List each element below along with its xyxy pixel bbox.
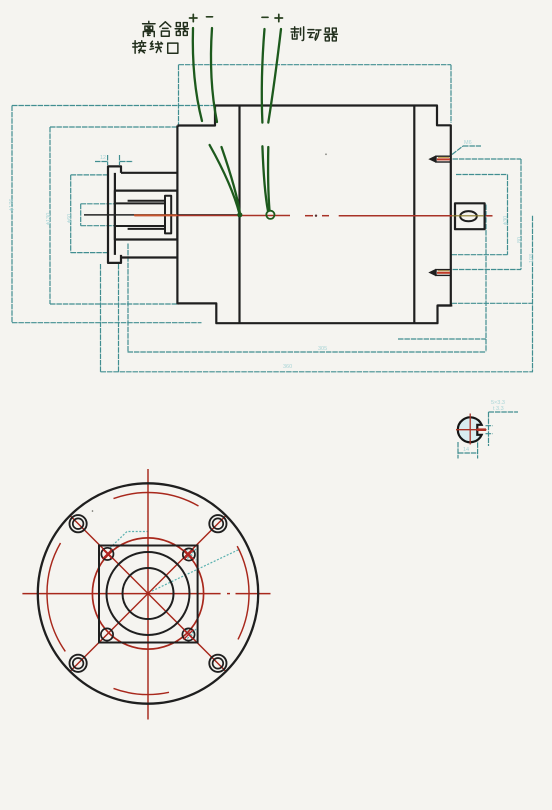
- svg-text:12: 12: [100, 155, 106, 161]
- svg-text:80: 80: [517, 237, 523, 243]
- svg-text:M6: M6: [464, 140, 472, 146]
- svg-text:14: 14: [463, 447, 469, 453]
- svg-text:ϕ30: ϕ30: [503, 216, 509, 225]
- svg-text:305: 305: [318, 346, 327, 352]
- svg-text:360: 360: [283, 364, 292, 370]
- svg-text:ϕ130: ϕ130: [46, 213, 52, 225]
- svg-text:ϕ176: ϕ176: [9, 199, 15, 211]
- svg-text:ϕ60: ϕ60: [67, 214, 73, 223]
- svg-text:108: 108: [529, 254, 535, 263]
- svg-text:t 3.3: t 3.3: [493, 406, 504, 412]
